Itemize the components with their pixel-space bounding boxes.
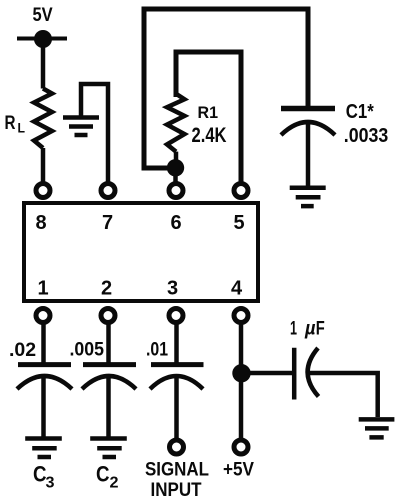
wire RL bottom to pin 8 — [41, 148, 46, 182]
svg-text:1: 1 — [290, 319, 297, 340]
svg-text:.005: .005 — [70, 339, 105, 361]
wire outer loop pin6 node to C1 top — [144, 9, 308, 168]
wire pin 3 to input cap — [174, 325, 179, 363]
capacitor 1uF left plate — [292, 348, 297, 400]
junction dot pin 6 node — [167, 159, 184, 176]
svg-text:6: 6 — [170, 212, 181, 234]
wire 1uF cap to ground — [309, 373, 378, 417]
wire C2 to ground — [106, 376, 111, 437]
ground C2 — [90, 439, 127, 458]
svg-text:2: 2 — [110, 475, 119, 492]
svg-text:7: 7 — [102, 212, 113, 234]
capacitor C3 curved plate — [17, 376, 72, 389]
svg-text:C1*: C1* — [346, 101, 374, 123]
svg-text:L: L — [18, 120, 26, 136]
ground pin 7 — [63, 118, 99, 136]
capacitor .01 curved plate — [150, 376, 203, 389]
svg-text:3: 3 — [167, 278, 178, 300]
svg-text:R: R — [5, 113, 16, 134]
wire pin 1 to C3 — [41, 325, 46, 363]
svg-text:4: 4 — [231, 278, 243, 300]
ground C3 — [25, 439, 62, 458]
wire 5V rail — [17, 37, 67, 41]
wire 5V dot to RL top — [41, 39, 46, 89]
pin 4 terminal circle — [234, 309, 248, 323]
pin 8 terminal circle — [36, 184, 50, 198]
capacitor C3 top plate — [18, 362, 71, 367]
svg-text:F: F — [316, 319, 325, 340]
wire dot to 1uF cap — [241, 371, 292, 376]
wire pin 4 to +5V terminal — [239, 325, 244, 439]
wire inner loop R1 top to pin 5 — [176, 52, 241, 184]
wire C3 to ground — [41, 376, 46, 437]
svg-text:2: 2 — [101, 278, 112, 300]
capacitor C2 curved plate — [82, 376, 136, 389]
ground C1 — [290, 188, 326, 206]
wire R1 bottom to dot — [174, 152, 179, 168]
op-amp U1 IC body — [24, 203, 258, 301]
wire input cap to signal terminal — [174, 376, 179, 438]
junction dot pin 4 node — [232, 364, 250, 382]
svg-text:C: C — [96, 462, 110, 487]
capacitor .01 top plate — [151, 362, 204, 367]
signal input terminal circle — [170, 440, 184, 454]
svg-text:5: 5 — [233, 212, 244, 234]
svg-text:INPUT: INPUT — [151, 480, 202, 501]
pin 5 terminal circle — [234, 184, 248, 198]
svg-text:SIGNAL: SIGNAL — [145, 460, 209, 481]
capacitor 1uF curved plate — [308, 348, 319, 397]
pin 3 terminal circle — [169, 309, 183, 323]
junction dot 5V node — [34, 30, 52, 48]
pin 7 terminal circle — [101, 184, 115, 198]
svg-text:.02: .02 — [9, 339, 36, 361]
pin 1 terminal circle — [36, 309, 50, 323]
wire dot to pin 6 — [173, 168, 178, 182]
resistor RL — [34, 89, 52, 149]
svg-text:.01: .01 — [146, 339, 168, 361]
wire C1 to ground — [306, 122, 311, 186]
svg-text:8: 8 — [35, 212, 46, 234]
ground 1uF — [359, 419, 395, 437]
pin 2 terminal circle — [101, 309, 115, 323]
svg-text:µ: µ — [304, 319, 316, 340]
wire pin 2 to C2 — [106, 325, 111, 363]
svg-text:R1: R1 — [198, 104, 219, 122]
capacitor C2 top plate — [83, 362, 136, 367]
svg-text:5V: 5V — [33, 5, 53, 26]
svg-text:.0033: .0033 — [344, 125, 389, 147]
+5V terminal circle — [234, 440, 248, 454]
capacitor C1 top plate — [281, 106, 335, 112]
svg-text:2.4K: 2.4K — [192, 124, 227, 147]
capacitor C1 curved plate — [281, 122, 335, 135]
wire pin 7 to ground — [81, 84, 108, 182]
svg-text:1: 1 — [37, 278, 48, 300]
svg-text:+5V: +5V — [223, 460, 254, 481]
svg-text:3: 3 — [46, 475, 55, 492]
pin 6 terminal circle — [169, 184, 183, 198]
resistor R1 — [167, 94, 185, 152]
